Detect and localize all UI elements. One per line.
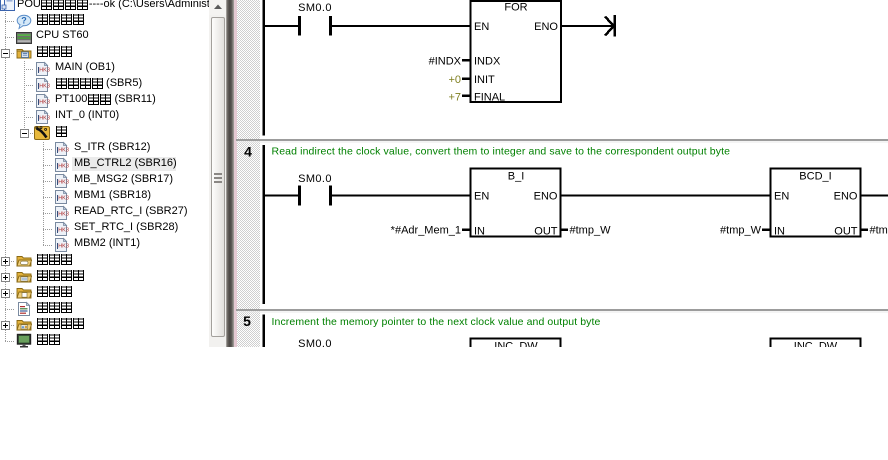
- tree vertical dotted line level3: [43, 141, 44, 245]
- wire BCD_I ENO to edge: [862, 195, 888, 197]
- CPU icon: [16, 30, 32, 46]
- pink accent line: [234, 0, 237, 347]
- POU page icon INT0: [35, 109, 51, 125]
- svg-text:INC_DW: INC_DW: [794, 341, 838, 348]
- POU page icon MBM2: [54, 237, 70, 253]
- POU page icon MB_MSG2: [54, 173, 70, 189]
- communication monitor icon: [16, 333, 32, 349]
- stub INDX: [462, 59, 470, 62]
- POU page icon SET_RTC_I: [54, 221, 70, 237]
- BCD_I IN stub: [762, 228, 770, 231]
- B_I IN stub: [462, 228, 470, 231]
- program block folder icon: [16, 45, 32, 61]
- help balloon icon: [16, 14, 32, 30]
- network3 wire ENO out: [562, 25, 614, 27]
- network3 continuation arrow chevron: [605, 17, 614, 36]
- system block page icon: [16, 301, 32, 317]
- svg-text:IN: IN: [474, 226, 485, 238]
- network3 contact SM0.0 bar1: [298, 16, 301, 36]
- svg-text:HK3: HK3: [39, 100, 50, 106]
- POU page icon SBR5: [35, 77, 51, 93]
- row14 READ_RTC_I: [74, 203, 188, 219]
- scrollbar up arrow: [213, 3, 223, 11]
- svg-text:FOR: FOR: [504, 2, 527, 14]
- network3 continuation arrow bar: [614, 15, 617, 37]
- svg-text:HK3: HK3: [58, 212, 69, 218]
- BCD_I OUT stub: [862, 228, 869, 231]
- separator network5: [236, 309, 888, 311]
- expander minus library: [20, 129, 29, 138]
- svg-text:#tmp_W: #tmp_W: [720, 225, 762, 237]
- splitter bar: [226, 0, 234, 347]
- vertical scrollbar: [209, 0, 227, 347]
- svg-text:#tmp_W: #tmp_W: [870, 225, 888, 237]
- status chart folder icon: [16, 269, 32, 285]
- tree stubs level1: [5, 21, 15, 22]
- ladder editor drawing: [236, 0, 888, 347]
- svg-text:ENO: ENO: [834, 191, 858, 203]
- row8 INT_0: [55, 107, 119, 123]
- data block folder icon: [16, 285, 32, 301]
- expander minus program block: [1, 49, 10, 58]
- svg-text:HK3: HK3: [58, 244, 69, 250]
- svg-text:#tmp_W: #tmp_W: [570, 225, 612, 237]
- network3 wire contact to FOR: [332, 25, 471, 27]
- stub FINAL: [462, 94, 470, 97]
- svg-text:SM0.0: SM0.0: [298, 2, 332, 14]
- row11 MB_CTRL2 selected: [74, 155, 177, 171]
- INC_DW box2: [771, 339, 861, 359]
- svg-text:SM0.0: SM0.0: [298, 338, 332, 347]
- B_I OUT stub: [562, 228, 569, 231]
- row4 program block: [36, 43, 72, 59]
- network4 left power rail: [262, 145, 265, 304]
- row18 status chart: [36, 267, 84, 283]
- row1 project title: [17, 0, 220, 12]
- svg-text:+0: +0: [448, 74, 461, 86]
- svg-text:HK3: HK3: [58, 180, 69, 186]
- separator network4: [236, 139, 888, 141]
- stub INIT: [462, 77, 470, 80]
- INC_DW box1: [471, 339, 561, 359]
- tree vertical dotted line level1: [5, 10, 6, 341]
- svg-text:HK3: HK3: [58, 228, 69, 234]
- row15 SET_RTC_I: [74, 219, 178, 235]
- wire B_I ENO to BCD_I EN: [562, 195, 771, 197]
- network3 wire rail to contact: [263, 25, 299, 27]
- svg-text:?: ?: [21, 16, 27, 26]
- svg-text:HK3: HK3: [58, 148, 69, 154]
- selected row highlight MB_CTRL2: [72, 157, 176, 171]
- svg-text:HK3: HK3: [58, 164, 69, 170]
- svg-text:OUT: OUT: [834, 226, 858, 238]
- svg-text:4: 4: [244, 144, 252, 160]
- svg-text:HK3: HK3: [39, 68, 50, 74]
- svg-text:+7: +7: [448, 92, 461, 104]
- row21 cross reference: [36, 315, 84, 331]
- scrollbar up button: [209, 0, 227, 15]
- row2 new features: [36, 11, 84, 27]
- network number gutter hatch: [237, 0, 260, 347]
- network3 contact SM0.0 bar2: [329, 16, 332, 36]
- svg-text:#INDX: #INDX: [429, 56, 462, 68]
- expander plus status chart: [1, 273, 10, 282]
- svg-text:INDX: INDX: [474, 56, 501, 68]
- POU page icon S_ITR: [54, 141, 70, 157]
- svg-text:Increment the memory pointer t: Increment the memory pointer to the next…: [272, 316, 601, 328]
- POU page icon READ_RTC_I: [54, 205, 70, 221]
- BCD_I box: [771, 169, 861, 237]
- network4 contact SM0.0 bar1: [298, 186, 301, 206]
- svg-text:FINAL: FINAL: [474, 92, 505, 104]
- svg-text:ENO: ENO: [534, 21, 558, 33]
- row22 communication: [36, 331, 60, 347]
- scrollbar thumb gripper: [214, 173, 222, 175]
- svg-text:OUT: OUT: [534, 226, 558, 238]
- symbol table folder icon: [16, 253, 32, 269]
- B_I box: [471, 169, 561, 237]
- network4 wire contact to B_I: [332, 195, 471, 197]
- svg-text:5: 5: [243, 313, 251, 329]
- svg-text:HK3: HK3: [58, 196, 69, 202]
- svg-text:EN: EN: [474, 21, 489, 33]
- svg-text:EN: EN: [774, 191, 789, 203]
- network5 left power rail: [262, 315, 265, 348]
- svg-text:Read indirect the clock value,: Read indirect the clock value, convert t…: [272, 146, 731, 158]
- expander plus cross reference: [1, 321, 10, 330]
- network4 wire rail to contact: [263, 195, 299, 197]
- row17 symbol table: [36, 251, 72, 267]
- row3 CPU ST60: [36, 27, 89, 43]
- POU page icon MBM1: [54, 189, 70, 205]
- svg-text:B_I: B_I: [508, 171, 525, 183]
- expander plus data block: [1, 289, 10, 298]
- svg-text:ENO: ENO: [534, 191, 558, 203]
- cross reference folder icon: [16, 317, 32, 333]
- svg-text:HK3: HK3: [39, 84, 50, 90]
- row12 MB_MSG2: [74, 171, 173, 187]
- svg-text:EN: EN: [474, 191, 489, 203]
- project tree panel: [0, 0, 209, 348]
- project icon: [0, 0, 16, 12]
- expander plus symbol table: [1, 257, 10, 266]
- row13 MBM1: [74, 187, 151, 203]
- row19 data block: [36, 283, 72, 299]
- tree stubs level2: [24, 69, 34, 70]
- svg-text:IN: IN: [774, 226, 785, 238]
- POU page icon MAIN: [35, 61, 51, 77]
- svg-text:INIT: INIT: [474, 74, 495, 86]
- svg-text:SM0.0: SM0.0: [298, 173, 332, 185]
- FOR box U-FOR: [471, 1, 562, 102]
- svg-text:INC_DW: INC_DW: [494, 341, 538, 348]
- row10 S_ITR: [74, 139, 150, 155]
- POU page icon MB_CTRL2: [54, 157, 70, 173]
- tree stubs level3: [43, 149, 53, 150]
- row20 system block: [36, 299, 72, 315]
- svg-text:BCD_I: BCD_I: [799, 171, 831, 183]
- tree vertical dotted line level2: [24, 61, 25, 134]
- row5 MAIN: [55, 59, 115, 75]
- network3 left power rail: [262, 0, 265, 136]
- svg-text:*#Adr_Mem_1: *#Adr_Mem_1: [391, 225, 461, 237]
- library wizard icon: [34, 125, 50, 141]
- svg-text:HK3: HK3: [39, 116, 50, 122]
- row16 MBM2: [74, 235, 140, 251]
- POU page icon SBR11: [35, 93, 51, 109]
- scrollbar thumb: [211, 17, 225, 337]
- row9 library: [55, 123, 67, 139]
- row6 time setting SBR5: [55, 75, 142, 91]
- row7 PT100 calc SBR11: [55, 91, 156, 107]
- network4 contact SM0.0 bar2: [329, 186, 332, 206]
